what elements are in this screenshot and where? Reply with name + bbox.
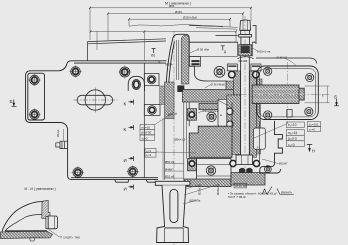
svg-text:Ø30Н9(М24): Ø30Н9(М24) — [203, 109, 219, 113]
svg-text:Ø1кγп: Ø1кγп — [56, 129, 60, 137]
spherical washer left — [239, 168, 245, 173]
svg-text:И: И — [124, 187, 127, 192]
extension line f — [242, 14, 244, 22]
svg-text:ГОСТ 7 08-Ж: ГОСТ 7 08-Ж — [228, 195, 246, 199]
dim end ticks — [89, 7, 252, 33]
leader from stack2 — [156, 152, 196, 153]
extension line for 15 dim — [143, 32, 145, 61]
svg-text:Ø25Н7Б: Ø25Н7Б — [198, 184, 202, 195]
left wall hatch — [165, 82, 175, 119]
svg-text:○ 17(Ø7)- 7Н9: ○ 17(Ø7)- 7Н9 — [61, 236, 81, 240]
cover right portion — [189, 25, 256, 44]
rotated labels bottom shaft — [189, 184, 220, 202]
hub band upper small — [226, 81, 233, 90]
obround slot — [77, 95, 113, 105]
detail wall hatch — [42, 200, 50, 218]
svg-text:β=0°0': β=0°0' — [288, 137, 298, 141]
detail foot notch — [30, 238, 35, 241]
svg-text:15: 15 — [158, 61, 162, 65]
left column bearing ball 2 — [227, 121, 234, 128]
face step profile — [189, 66, 226, 89]
svg-text:Ø25А: Ø25А — [166, 63, 173, 67]
svg-text:β=0°30': β=0°30' — [142, 131, 153, 135]
svg-text:Ø36: Ø36 — [169, 4, 175, 8]
foot pad 1 — [115, 180, 129, 183]
bottom band right — [231, 173, 265, 185]
bell lock nut — [177, 85, 184, 92]
svg-text:Ø24Н9: Ø24Н9 — [239, 59, 248, 63]
slot centerlines — [74, 88, 118, 113]
cover step — [88, 39, 166, 61]
perp flag 1 — [152, 49, 156, 54]
bolt body top-left — [69, 65, 81, 77]
svg-text:х₁=0: х₁=0 — [142, 136, 148, 140]
svg-text:Ø 36 Н9/р6: Ø 36 Н9/р6 — [211, 83, 226, 87]
right column hatch lower — [257, 103, 261, 154]
flange bolt mid — [207, 112, 216, 121]
leader from stack1 — [155, 112, 175, 125]
framed dim — [234, 183, 247, 188]
stack 2 — [145, 148, 156, 157]
right vertical strip beside stud — [250, 71, 257, 157]
svg-text:Ø10Н7: Ø10Н7 — [279, 162, 288, 166]
extension line d — [96, 32, 98, 51]
left vertical strip beside stud — [234, 71, 241, 95]
svg-text:м: м — [220, 113, 222, 117]
bolt ear top — [28, 74, 40, 86]
svg-text:И - И ( увеличено ): И - И ( увеличено ) — [25, 187, 56, 191]
svg-text:m₁=10: m₁=10 — [142, 126, 151, 130]
bearing cap small — [189, 57, 237, 67]
bottom band left — [184, 179, 231, 187]
square recess bolt upper — [144, 74, 159, 86]
svg-text:К: К — [124, 127, 127, 132]
gear block — [189, 126, 232, 157]
horizontal shaft axis — [228, 93, 331, 95]
vertical axis of gear shaft — [173, 31, 175, 245]
bolt body bottom-mid — [127, 165, 139, 177]
bolt body bottom-left — [72, 166, 84, 178]
left wall lower lines — [163, 119, 165, 180]
main hub band left — [183, 90, 234, 103]
svg-text:И: И — [124, 158, 127, 163]
extension line h — [235, 32, 237, 43]
detail outer profile — [2, 201, 44, 231]
bell dome — [166, 34, 189, 86]
upper bearing caps — [227, 64, 261, 71]
stud threaded socket — [237, 45, 253, 59]
housing body outline — [67, 61, 167, 180]
extension line c — [128, 19, 130, 26]
vertical tie-rod lines — [238, 42, 253, 157]
svg-text:М10×1-лв: М10×1-лв — [258, 49, 271, 53]
extension line a — [89, 8, 91, 40]
detail inner wall line — [5, 214, 42, 230]
foot bolt — [265, 166, 272, 173]
detail bottom band — [1, 231, 53, 238]
svg-text:Δ₁=101: Δ₁=101 — [309, 122, 319, 126]
drain plug boss — [56, 141, 68, 148]
housing inner top line — [74, 62, 166, 64]
foot pad 2 — [146, 180, 158, 183]
hub band lower — [199, 104, 231, 110]
wavy back-wall line — [129, 24, 238, 27]
roughness mark — [262, 187, 294, 195]
oval inspection slot circle — [77, 90, 113, 110]
extension line e — [250, 8, 252, 21]
drain dim line — [62, 129, 64, 141]
left bracket panel — [218, 99, 228, 126]
spherical washer right — [246, 168, 252, 173]
bolt body top-mid — [118, 66, 131, 79]
upper bearing balls — [229, 71, 260, 78]
dim line 4 — [91, 31, 237, 33]
cover top second line — [196, 28, 238, 30]
stack 1 — [140, 125, 155, 141]
svg-text:д: д — [224, 50, 226, 54]
vertical recess edge line — [143, 63, 145, 178]
bell wall hatch — [181, 35, 189, 84]
upper-left bearing — [187, 109, 196, 121]
svg-text:t₁=1: t₁=1 — [146, 149, 151, 153]
housing bottom second line — [71, 177, 158, 179]
svg-text:Ø60Н7п: Ø60Н7п — [281, 191, 293, 195]
stack 3 — [286, 122, 304, 147]
perp flag 2 — [221, 46, 225, 51]
svg-text:х₂=0: х₂=0 — [309, 127, 315, 131]
svg-text:К: К — [124, 102, 127, 107]
svg-text:е₂=10: е₂=10 — [288, 123, 297, 127]
view H arrow — [307, 145, 312, 152]
ear inner line — [28, 73, 45, 120]
lower-left bearing — [188, 159, 197, 171]
svg-text:Е: Е — [10, 99, 13, 104]
svg-text:t₂=1: t₂=1 — [146, 153, 151, 157]
ear flange outline — [26, 64, 68, 129]
gear side lines — [184, 102, 232, 180]
svg-text:Ø24Н7а: Ø24Н7а — [216, 184, 220, 195]
svg-text:m₂=15: m₂=15 — [288, 131, 298, 135]
svg-text:Ø 30 Н7: Ø 30 Н7 — [236, 184, 248, 188]
right housing wall below plate — [259, 121, 282, 173]
plate vertical centerline — [287, 62, 289, 124]
svg-text:Ø 56 п9м: Ø 56 п9м — [197, 48, 209, 52]
detail plug hex — [48, 216, 57, 229]
extension line g — [229, 19, 231, 27]
left wall hatch ext — [160, 86, 165, 104]
detail bottom top line — [5, 230, 47, 232]
dim line 3 — [129, 18, 230, 20]
bearing housing lower — [197, 159, 232, 180]
detail plug washer — [46, 217, 48, 229]
leader from stack3 — [254, 124, 286, 138]
detail plug inner line — [54, 216, 56, 229]
svg-text:х₂=0: х₂=0 — [288, 143, 295, 147]
vertical axis of stud — [244, 16, 246, 187]
left column bearing ball 1 — [227, 108, 234, 115]
square recess bolt lower — [144, 104, 160, 115]
nut at bottom of stud — [236, 155, 252, 165]
lower bearing balls — [230, 160, 260, 166]
right bracket panel — [254, 128, 266, 149]
extension line b — [107, 14, 109, 41]
m dimension right — [305, 86, 330, 103]
stack 4 — [308, 122, 321, 132]
dim line 1 — [90, 7, 251, 9]
right hub hatch — [257, 79, 263, 103]
svg-text:Ø345: Ø345 — [175, 10, 182, 14]
svg-text:Б: Б — [334, 95, 337, 100]
bolt ear bottom — [28, 108, 40, 120]
dim line 2 — [108, 13, 243, 15]
detail leader — [49, 230, 62, 237]
svg-text:Ø250 h9/р6: Ø250 h9/р6 — [183, 16, 198, 20]
svg-text:Ø1: Ø1 — [151, 54, 155, 58]
flange bolt lower — [206, 166, 215, 175]
face bolt near stud — [214, 66, 225, 77]
rear housing top edge — [256, 58, 317, 64]
svg-text:Ø56×1,5: Ø56×1,5 — [175, 138, 186, 142]
left column cross-hatch block — [227, 95, 241, 155]
